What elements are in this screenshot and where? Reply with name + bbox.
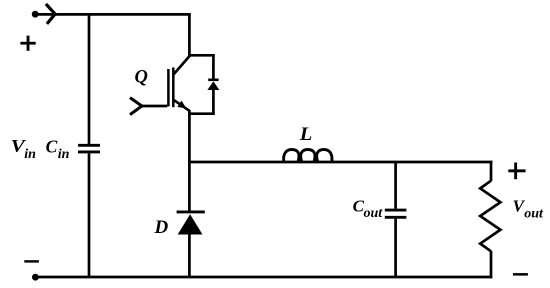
svg-text:out: out [524,207,544,222]
emitter diagonal [174,100,190,111]
svg-text:in: in [58,147,70,162]
wire: left branch upper (C_in top lead) [88,13,91,144]
wire: middle rail (switch node to load) [188,161,492,164]
- label (input negative) [24,260,39,262]
transistor Q1 (IGBT) [130,55,190,114]
svg-text:C: C [46,136,58,156]
+ label (output positive) [508,163,525,180]
wire: IGBT bottom horizontal (freewheel diode return) [189,112,214,115]
wire: C_out bottom lead [394,219,397,277]
cathode bar [208,79,218,82]
capacitor C_in [78,145,100,152]
input current arrow [46,4,55,24]
wire: diode D bottom lead [188,234,191,278]
terminal dot (bottom-left) [32,274,39,281]
gate chevron [130,98,142,115]
collector diagonal [174,55,191,74]
freewheeling diode (anti-parallel) [207,55,219,113]
emitter arrowhead [177,101,186,109]
+ label (input positive) [20,36,35,51]
wire: collector lead [188,14,191,56]
input terminal dot (top-left) [32,11,39,18]
diode D [177,212,205,235]
capacitor C_out [385,210,407,217]
svg-text:Q: Q [135,67,148,87]
wire: load bottom lead [490,251,493,278]
inductor L [284,150,332,163]
wire: top rail [35,13,191,16]
- label (output negative) [513,273,528,276]
svg-text:out: out [364,206,384,221]
wire: emitter lead [188,110,191,163]
wire: C_out top lead [394,162,397,209]
label C_in [46,136,70,162]
wire: left branch lower (C_in bottom lead) [88,153,91,277]
wire: bottom rail [35,276,492,279]
bottom lead [212,89,215,114]
top lead [212,55,215,79]
label V_in [11,136,36,162]
svg-text:L: L [299,124,313,145]
svg-text:D: D [154,217,169,238]
gate wire [141,105,168,108]
triangle (anode, pointing up) [207,81,219,90]
wire: load top lead [490,161,493,181]
svg-text:in: in [24,147,36,162]
label V_out [513,196,544,221]
body bar (right) [172,68,175,108]
gate bar (left) [167,69,170,106]
wire: IGBT top horizontal to freewheel diode [189,54,214,57]
wire: diode D top lead [188,162,191,212]
label C_out [353,196,384,221]
load resistor (zigzag) [480,181,500,252]
triangle (anode, pointing up) [178,214,203,234]
cathode bar [177,210,205,213]
